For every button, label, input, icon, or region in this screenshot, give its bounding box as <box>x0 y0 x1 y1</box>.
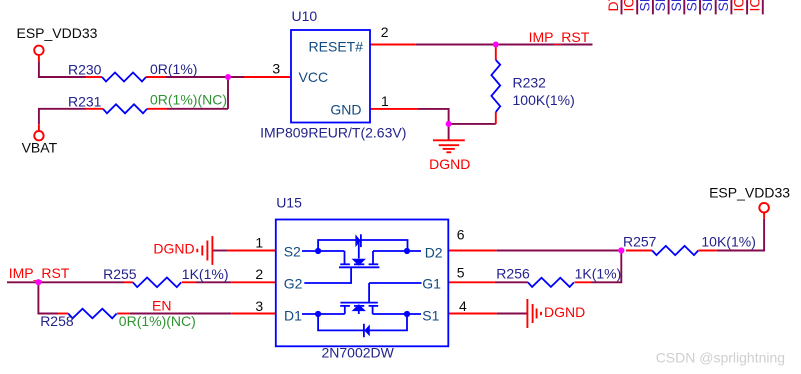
svg-text:R256: R256 <box>496 266 530 282</box>
svg-text:U15: U15 <box>276 195 302 211</box>
svg-text:ESP_VDD33: ESP_VDD33 <box>17 25 98 41</box>
svg-text:2N7002DW: 2N7002DW <box>322 344 395 360</box>
svg-text:S2: S2 <box>284 244 301 260</box>
svg-text:R257: R257 <box>623 234 657 250</box>
svg-text:6: 6 <box>457 227 465 243</box>
svg-text:0R(1%)(NC): 0R(1%)(NC) <box>150 91 227 107</box>
svg-text:0R(1%): 0R(1%) <box>150 61 197 77</box>
svg-text:SPIWP: SPIWP <box>715 0 731 12</box>
svg-text:100K(1%): 100K(1%) <box>513 92 575 108</box>
svg-text:R232: R232 <box>513 75 547 91</box>
svg-text:VCC: VCC <box>299 69 329 85</box>
svg-text:SPICLK: SPICLK <box>684 0 700 12</box>
svg-text:1: 1 <box>381 93 389 109</box>
svg-text:S1: S1 <box>422 307 439 323</box>
svg-text:IMP_RST: IMP_RST <box>529 29 590 45</box>
svg-text:2: 2 <box>381 24 389 40</box>
svg-text:10K(1%): 10K(1%) <box>701 234 755 250</box>
svg-text:SPIQ: SPIQ <box>652 0 668 12</box>
svg-text:GND: GND <box>330 102 361 118</box>
svg-text:RESET#: RESET# <box>309 39 364 55</box>
svg-text:D1: D1 <box>284 307 302 323</box>
svg-text:0R(1%)(NC): 0R(1%)(NC) <box>119 313 196 329</box>
svg-text:IMP_RST: IMP_RST <box>9 265 70 281</box>
svg-text:EN: EN <box>152 297 171 313</box>
svg-text:R230: R230 <box>68 61 102 77</box>
svg-text:5: 5 <box>457 265 465 281</box>
svg-text:VBAT: VBAT <box>22 139 58 155</box>
svg-text:SPIHD: SPIHD <box>699 0 715 12</box>
svg-text:CSDN @sprlightning: CSDN @sprlightning <box>656 349 785 365</box>
svg-text:ESP_VDD33: ESP_VDD33 <box>709 185 790 201</box>
svg-text:DGND: DGND <box>429 156 470 172</box>
svg-text:3: 3 <box>255 298 263 314</box>
svg-text:3: 3 <box>272 60 280 76</box>
svg-text:2: 2 <box>255 266 263 282</box>
svg-text:SPICS0: SPICS0 <box>636 0 652 12</box>
svg-text:G2: G2 <box>284 275 303 291</box>
svg-text:1: 1 <box>255 234 263 250</box>
svg-text:IO16: IO16 <box>731 0 747 12</box>
svg-text:IO0: IO0 <box>621 0 637 12</box>
svg-text:G1: G1 <box>422 275 441 291</box>
svg-text:SPID: SPID <box>668 0 684 12</box>
svg-text:R258: R258 <box>40 313 74 329</box>
svg-text:DTR: DTR <box>605 0 621 12</box>
svg-text:U10: U10 <box>292 8 318 24</box>
svg-text:1K(1%): 1K(1%) <box>575 266 622 282</box>
svg-text:IO17: IO17 <box>746 0 762 12</box>
svg-text:D2: D2 <box>425 244 443 260</box>
svg-text:DGND: DGND <box>153 241 194 257</box>
svg-text:DGND: DGND <box>544 304 585 320</box>
svg-text:1K(1%): 1K(1%) <box>182 266 229 282</box>
svg-text:IMP809REUR/T(2.63V): IMP809REUR/T(2.63V) <box>260 124 406 140</box>
svg-text:R231: R231 <box>68 94 102 110</box>
svg-text:R255: R255 <box>103 266 137 282</box>
svg-text:4: 4 <box>459 298 467 314</box>
